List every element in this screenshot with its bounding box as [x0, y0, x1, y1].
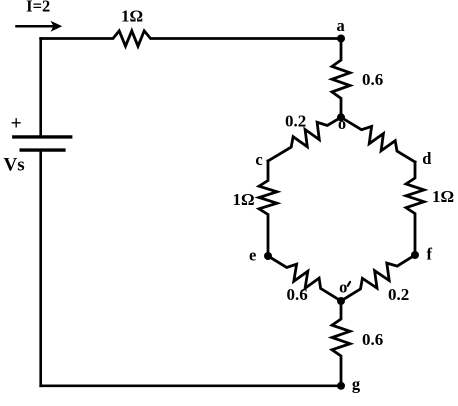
svg-text:I=2: I=2: [26, 0, 50, 16]
node f: [411, 251, 419, 259]
resistor 0.6 o'-g: [332, 301, 350, 386]
node o': [337, 297, 345, 305]
svg-text:+: +: [11, 114, 22, 135]
wire bottom: [41, 384, 341, 387]
node g: [337, 382, 345, 390]
resistor 0.2 f-o': [341, 255, 415, 301]
svg-text:0.6: 0.6: [287, 285, 308, 304]
wire top with resistor 1ohm: [41, 31, 341, 46]
svg-text:o: o: [338, 114, 346, 133]
resistor 0.6 e-o': [268, 256, 341, 301]
svg-text:d: d: [422, 149, 431, 168]
resistor 1ohm c-e: [259, 161, 277, 256]
current arrow I=2: [17, 25, 57, 28]
svg-text:1Ω: 1Ω: [233, 190, 255, 209]
svg-text:c: c: [255, 150, 262, 169]
svg-text:a: a: [336, 16, 344, 35]
wire left rail upper: [39, 39, 42, 137]
svg-text:0.2: 0.2: [285, 112, 306, 131]
svg-text:Vs: Vs: [4, 155, 25, 176]
battery Vs bottom plate: [21, 148, 64, 151]
resistor 0.2 o-c: [268, 117, 341, 161]
svg-text:0.2: 0.2: [388, 285, 409, 304]
svg-text:e: e: [249, 246, 256, 265]
svg-text:0.6: 0.6: [362, 70, 383, 89]
svg-text:1Ω: 1Ω: [121, 7, 143, 26]
svg-text:0.6: 0.6: [362, 330, 383, 349]
battery Vs top plate: [14, 135, 71, 138]
resistor 1ohm d-f: [406, 162, 424, 255]
wire left rail lower: [39, 150, 42, 386]
svg-text:f: f: [427, 245, 433, 264]
resistor o-d: [341, 117, 415, 162]
node e: [264, 252, 272, 260]
svg-text:o: o: [339, 277, 347, 296]
resistor 0.6 a-o: [332, 39, 350, 118]
node a: [337, 35, 345, 43]
arrowhead: [51, 21, 63, 32]
svg-text:g: g: [352, 375, 361, 394]
svg-text:1Ω: 1Ω: [432, 187, 454, 206]
node o: [337, 113, 345, 121]
